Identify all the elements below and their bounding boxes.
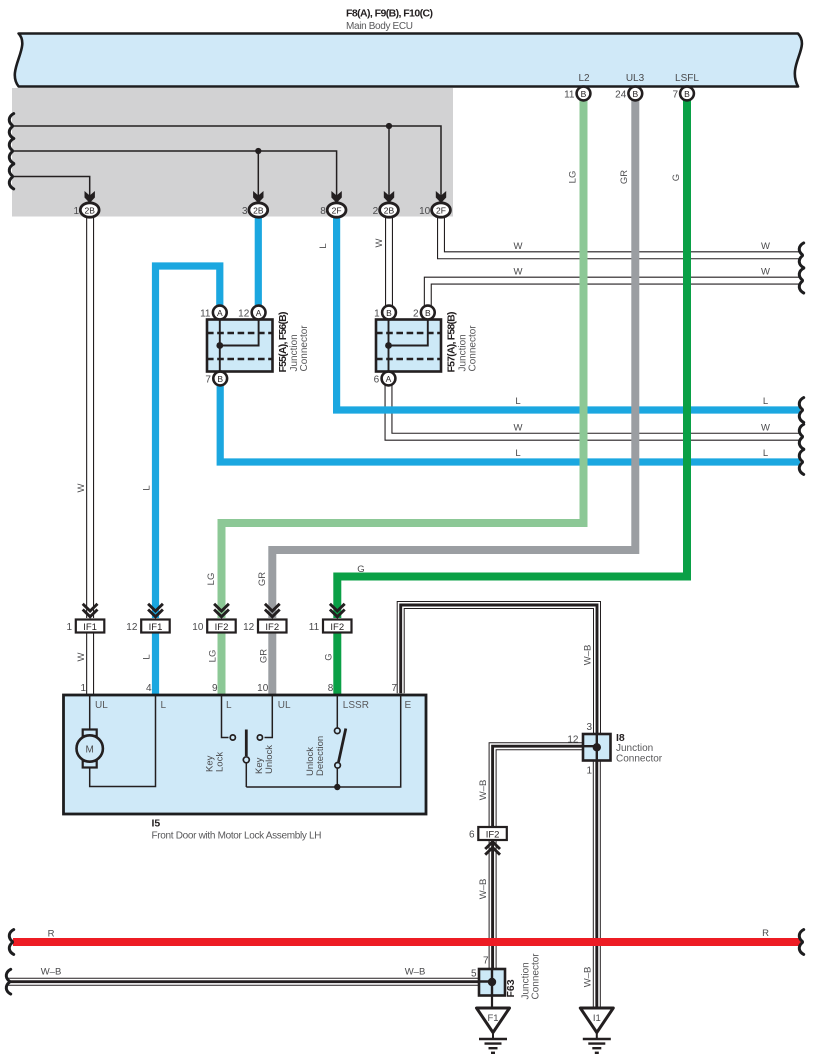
svg-text:2B: 2B — [84, 205, 95, 215]
svg-text:L: L — [161, 700, 167, 711]
ground F1 — [477, 996, 510, 1053]
terminal 11 B — [564, 87, 590, 101]
black wire 3 (ECU internal, to pin 1) — [12, 177, 90, 197]
svg-text:L: L — [515, 396, 520, 407]
svg-text:7: 7 — [205, 375, 211, 386]
svg-text:4: 4 — [146, 683, 152, 694]
wire W-B from I8 pin 12 to IF2(6) — [493, 746, 585, 828]
svg-text:1: 1 — [66, 622, 72, 633]
svg-text:W: W — [514, 241, 523, 252]
svg-text:12: 12 — [567, 735, 579, 746]
terminal 3 2B — [242, 203, 268, 217]
key lock switch — [222, 695, 250, 787]
svg-text:L: L — [318, 243, 329, 248]
svg-text:R: R — [48, 929, 55, 940]
svg-text:B: B — [684, 89, 690, 99]
svg-text:9: 9 — [212, 683, 218, 694]
svg-text:A: A — [256, 308, 262, 318]
svg-text:Junction: Junction — [616, 743, 653, 754]
svg-text:G: G — [323, 653, 334, 660]
terminal 7 B — [672, 87, 693, 101]
svg-text:Connector: Connector — [531, 953, 542, 1000]
svg-text:11: 11 — [200, 309, 211, 320]
black wire 1 (ECU internal, to pins 2 and 10) — [12, 126, 441, 196]
svg-text:A: A — [217, 308, 223, 318]
svg-text:10: 10 — [257, 683, 269, 694]
terminal 8 2F — [320, 203, 346, 217]
F57 pin 6 A — [374, 372, 396, 386]
svg-text:L: L — [763, 396, 768, 407]
svg-text:I1: I1 — [593, 1013, 601, 1024]
ground I1 — [580, 1008, 613, 1053]
svg-text:1: 1 — [73, 206, 79, 217]
wire LG below IF2 to I5 pin 9 — [218, 632, 226, 695]
wire G below IF2 to I5 pin 8 — [333, 632, 341, 695]
svg-text:7: 7 — [391, 683, 397, 694]
svg-text:GR: GR — [257, 572, 268, 586]
motor M circuit — [90, 695, 156, 787]
svg-text:L: L — [142, 485, 153, 490]
wire W-B from left edge to F63 pin 5 — [8, 978, 481, 986]
svg-text:L: L — [763, 448, 768, 459]
svg-text:UL: UL — [95, 700, 108, 711]
svg-text:W: W — [76, 483, 87, 492]
wire W from terminal 1 to IF1 — [86, 217, 94, 618]
svg-text:UL3: UL3 — [626, 73, 645, 84]
svg-text:IF2: IF2 — [215, 622, 229, 633]
svg-text:F55(A), F56(B): F55(A), F56(B) — [277, 312, 289, 373]
svg-text:B: B — [386, 308, 392, 318]
IF1 connector (12) — [126, 604, 169, 633]
arrows into terminals — [85, 191, 447, 203]
svg-text:W–B: W–B — [583, 645, 594, 666]
svg-text:IF2: IF2 — [330, 622, 344, 633]
svg-text:LG: LG — [568, 171, 579, 184]
svg-text:IF2: IF2 — [265, 622, 279, 633]
wire GR below IF2 to I5 pin 10 — [268, 632, 276, 695]
wire W-B from I8 pin 1 to ground I1 — [593, 758, 601, 1008]
svg-text:2: 2 — [413, 309, 419, 320]
svg-text:E: E — [405, 700, 412, 711]
I5 bottom wire to E — [246, 695, 400, 787]
red wire R — [13, 938, 801, 946]
wire W from terminal 2 to F57 pin 1 — [385, 217, 393, 308]
F55 labels — [277, 312, 310, 373]
wire L below IF1 to I5 pin 4 — [152, 632, 159, 695]
svg-text:B: B — [581, 89, 587, 99]
svg-text:7: 7 — [483, 956, 489, 967]
svg-text:F8(A), F9(B), F10(C): F8(A), F9(B), F10(C) — [346, 8, 433, 20]
svg-text:1: 1 — [586, 766, 592, 777]
svg-text:IF1: IF1 — [149, 622, 163, 633]
svg-text:I5: I5 — [152, 818, 161, 830]
svg-text:12: 12 — [238, 309, 250, 320]
IF2 (6) connector — [469, 827, 507, 855]
wire W from terminal 10 to right edge — [441, 217, 800, 255]
svg-text:Unlock: Unlock — [264, 745, 275, 774]
svg-text:1: 1 — [374, 309, 380, 320]
svg-text:W–B: W–B — [41, 967, 62, 978]
wire G from ECU pin 7 to IF2(11) — [337, 100, 687, 618]
svg-text:W–B: W–B — [405, 967, 426, 978]
wire GR from ECU pin 24 to IF2(12) — [272, 100, 635, 618]
svg-text:W: W — [761, 241, 770, 252]
svg-text:A: A — [386, 374, 392, 384]
svg-text:12: 12 — [243, 622, 255, 633]
svg-text:3: 3 — [242, 206, 248, 217]
Main Body ECU band — [15, 34, 802, 87]
key unlock switch — [257, 695, 272, 740]
svg-text:W–B: W–B — [583, 967, 594, 988]
svg-text:UL: UL — [278, 700, 291, 711]
svg-text:G: G — [671, 174, 682, 181]
svg-text:2B: 2B — [384, 205, 395, 215]
svg-text:1: 1 — [80, 683, 86, 694]
svg-text:2: 2 — [373, 206, 379, 217]
junction connector F57(A), F58(B) — [376, 320, 441, 372]
svg-text:LSFL: LSFL — [675, 73, 699, 84]
F57 pin 2 B — [413, 306, 435, 320]
wire L from terminal 8 to right edge — [337, 218, 800, 411]
svg-text:W: W — [514, 423, 523, 434]
svg-text:W: W — [76, 652, 87, 661]
wire L from F55 pin 7 to right edge — [220, 383, 800, 462]
svg-text:IF1: IF1 — [83, 622, 97, 633]
svg-text:L: L — [515, 448, 520, 459]
F63 junction connector — [471, 953, 542, 1000]
svg-text:7: 7 — [672, 90, 678, 101]
svg-text:LSSR: LSSR — [343, 700, 369, 711]
wire W-B below IF2(6) to F63 — [489, 840, 497, 970]
wire W below IF1 to I5 pin 1 — [86, 631, 94, 695]
F57 pin 1 B — [374, 306, 396, 320]
svg-text:8: 8 — [328, 683, 334, 694]
svg-text:Connector: Connector — [299, 325, 310, 372]
svg-text:11: 11 — [309, 622, 320, 633]
svg-text:8: 8 — [320, 206, 326, 217]
svg-text:6: 6 — [469, 830, 475, 841]
svg-text:W: W — [514, 267, 523, 278]
svg-text:10: 10 — [419, 206, 431, 217]
svg-text:2B: 2B — [253, 205, 264, 215]
svg-text:F63: F63 — [505, 979, 517, 997]
svg-text:Connector: Connector — [468, 325, 479, 372]
wire W-B from I5 pin 7 to I8 — [401, 605, 597, 736]
terminal 24 B — [615, 87, 642, 101]
svg-text:R: R — [762, 928, 769, 939]
svg-text:LG: LG — [206, 573, 217, 586]
svg-text:12: 12 — [126, 622, 138, 633]
wire W from F57 pin 2 to right edge — [428, 281, 800, 309]
svg-text:W: W — [761, 423, 770, 434]
svg-text:W–B: W–B — [478, 879, 489, 900]
svg-text:GR: GR — [258, 649, 269, 663]
unlock detection switch — [335, 695, 346, 787]
svg-text:W: W — [761, 267, 770, 278]
svg-text:6: 6 — [374, 375, 380, 386]
W-B bottom labels — [6, 969, 10, 994]
I8 junction connector — [567, 722, 662, 777]
black wire 2 (ECU internal, to pins 3 and 8) — [12, 151, 337, 196]
F55 pin 11 A — [200, 306, 227, 320]
svg-text:2F: 2F — [436, 205, 446, 215]
torn-edge curls on ECU internal wires — [9, 114, 13, 139]
svg-text:L: L — [142, 654, 153, 659]
svg-text:Lock: Lock — [215, 752, 226, 772]
svg-text:Connector: Connector — [616, 754, 663, 765]
svg-text:5: 5 — [471, 969, 477, 980]
svg-text:11: 11 — [564, 90, 575, 101]
terminal 10 2F — [419, 203, 450, 217]
torn-edge curls right side — [799, 243, 803, 268]
svg-text:LG: LG — [208, 650, 219, 663]
I5 Front Door with Motor Lock Assembly LH box — [64, 695, 427, 814]
wire LG from ECU pin 11 to IF2(10) — [222, 100, 584, 618]
svg-text:3: 3 — [586, 722, 592, 733]
svg-text:W–B: W–B — [478, 780, 489, 801]
svg-text:W: W — [374, 238, 385, 247]
junction connector F55(A), F56(B) — [207, 320, 273, 372]
svg-text:IF2: IF2 — [486, 829, 500, 840]
svg-text:Front Door with Motor Lock Ass: Front Door with Motor Lock Assembly LH — [152, 831, 322, 842]
terminal 1 2B — [73, 203, 99, 217]
terminal 2 2B — [373, 203, 399, 217]
F57 labels — [446, 312, 479, 373]
svg-text:GR: GR — [619, 170, 630, 184]
ECU internal gray region — [12, 88, 453, 217]
svg-text:Detection: Detection — [315, 736, 326, 776]
IF2 connector (11) — [309, 604, 352, 633]
svg-text:2F: 2F — [332, 205, 342, 215]
motor M — [77, 730, 103, 768]
wire L from terminal 3 to F55 pin 12 — [255, 218, 262, 309]
svg-text:F57(A), F58(B): F57(A), F58(B) — [446, 312, 458, 373]
svg-text:F1: F1 — [487, 1013, 498, 1024]
svg-text:Main Body ECU: Main Body ECU — [346, 21, 413, 32]
svg-text:M: M — [86, 745, 94, 756]
F55 pin 12 A — [238, 306, 265, 320]
IF2 connector (12) — [243, 604, 286, 633]
svg-text:24: 24 — [615, 90, 627, 101]
svg-text:B: B — [217, 374, 223, 384]
svg-text:10: 10 — [192, 622, 204, 633]
svg-text:B: B — [632, 89, 638, 99]
svg-text:B: B — [425, 308, 431, 318]
F55 pin 7 B — [205, 372, 227, 386]
wire W from F57 pin 6 to right edge — [389, 382, 801, 437]
wire L from F55 pin 11 to IF1(12) — [156, 266, 220, 618]
IF2 connector (10) — [192, 604, 235, 633]
svg-text:L: L — [226, 700, 232, 711]
svg-text:L2: L2 — [578, 73, 590, 84]
IF1 connector (1) — [66, 604, 104, 633]
svg-text:G: G — [357, 564, 364, 575]
